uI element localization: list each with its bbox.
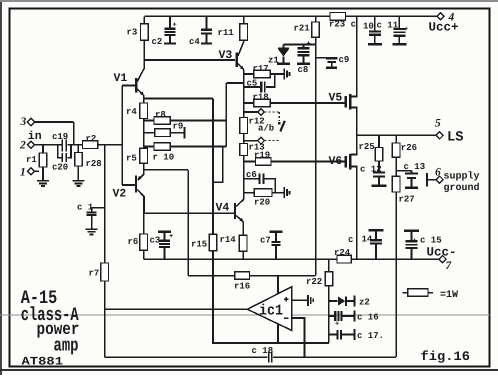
svg-text:c: c [348,235,353,245]
svg-text:c4: c4 [189,37,200,47]
svg-text:+: + [169,233,173,241]
svg-text:+: + [307,41,311,49]
svg-text:c3: c3 [150,236,161,246]
svg-text:r18: r18 [253,93,269,103]
svg-text:c5: c5 [247,79,258,89]
svg-text:r25: r25 [359,142,375,152]
svg-text:r14: r14 [220,235,237,245]
svg-text:c 1: c 1 [77,203,94,213]
svg-text:ground: ground [444,182,480,194]
svg-text:6: 6 [435,167,441,179]
svg-text:z1: z1 [268,56,279,66]
svg-text:c 17.: c 17. [357,331,384,341]
svg-text:c 16: c 16 [357,313,379,323]
svg-text:c19: c19 [52,132,68,142]
svg-text:=1W: =1W [440,290,458,301]
svg-text:r4: r4 [126,107,137,117]
svg-text:r16: r16 [234,282,250,292]
svg-text:+: + [335,321,339,329]
svg-text:r19: r19 [254,151,270,161]
svg-text:r5: r5 [126,154,137,164]
svg-text:r27: r27 [399,195,415,205]
svg-text:LS: LS [447,129,464,145]
svg-text:r28: r28 [86,159,102,169]
svg-text:c6: c6 [246,170,257,180]
svg-text:r9: r9 [173,122,184,132]
svg-text:10: 10 [363,22,374,32]
svg-text:5: 5 [435,118,441,130]
svg-text:3: 3 [20,116,27,128]
svg-text:fig.16: fig.16 [421,349,471,364]
svg-text:c9: c9 [339,55,350,65]
svg-text:AT881: AT881 [22,356,64,369]
svg-text:r24: r24 [334,248,351,258]
svg-text:V6: V6 [329,155,343,168]
svg-text:r20: r20 [254,198,270,208]
svg-text:r2: r2 [86,134,97,144]
svg-text:r3: r3 [127,28,138,38]
svg-text:r26: r26 [401,143,417,153]
svg-text:r23 c: r23 c [329,20,356,30]
svg-text:amp: amp [54,336,79,357]
svg-text:c 12: c 12 [360,165,382,175]
svg-text:V5: V5 [329,92,343,105]
svg-text:c 11: c 11 [377,21,399,31]
svg-text:c8: c8 [298,65,309,75]
svg-text:r17: r17 [253,64,269,74]
svg-text:r21: r21 [294,24,311,34]
svg-text:1: 1 [20,167,26,179]
svg-text:r7: r7 [89,269,100,279]
svg-text:V2: V2 [113,188,127,201]
svg-text:r11: r11 [218,28,235,38]
svg-text:+: + [404,26,408,34]
svg-text:c 18: c 18 [252,346,274,356]
svg-text:V4: V4 [216,202,230,215]
svg-text:14: 14 [362,235,373,245]
svg-text:c 15: c 15 [420,236,442,246]
svg-text:r22: r22 [306,277,322,287]
svg-text:r1: r1 [26,155,37,165]
svg-text:r8: r8 [155,110,166,120]
svg-text:z2: z2 [359,298,370,308]
svg-text:c20: c20 [52,163,68,173]
svg-text:in: in [28,130,42,143]
svg-text:r15: r15 [191,240,207,250]
svg-text:Ucc-: Ucc- [427,246,457,260]
svg-text:r 10: r 10 [153,153,175,163]
svg-text:V3: V3 [219,49,233,62]
svg-text:Ucc+: Ucc+ [429,21,459,35]
svg-text:c 13: c 13 [404,162,426,172]
svg-text:2: 2 [19,140,26,152]
svg-text:ic1: ic1 [259,303,283,320]
svg-text:c2: c2 [152,37,163,47]
svg-text:supply: supply [444,171,480,183]
svg-text:V1: V1 [114,72,128,85]
svg-text:r6: r6 [128,237,139,247]
svg-text:c7: c7 [260,236,271,246]
svg-text:+: + [173,22,177,30]
svg-text:a/b: a/b [258,124,274,134]
svg-text:+: + [413,238,417,246]
